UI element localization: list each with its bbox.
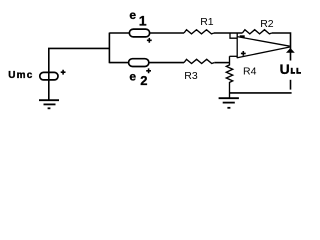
svg-text:R2: R2 — [260, 18, 274, 30]
wire R2 to output corner, down along output — [272, 33, 291, 61]
wire inverting input stub — [230, 33, 237, 38]
source e2 — [129, 59, 149, 67]
subscript u glyph (two stems with feet) — [291, 68, 301, 74]
svg-text:R1: R1 — [200, 16, 214, 28]
plus sign of Umc — [61, 70, 66, 75]
svg-text:R4: R4 — [243, 66, 257, 78]
svg-text:e: e — [129, 8, 136, 22]
wire Umc vertical + top horizontal to junction — [49, 48, 110, 100]
wire top branch: junction to e1 — [109, 32, 129, 34]
svg-text:2: 2 — [140, 73, 147, 88]
source e1 — [129, 29, 149, 37]
wire e1 to R1 — [150, 32, 184, 34]
svg-text:U: U — [280, 61, 290, 77]
wire output stub below Uu label — [290, 80, 292, 90]
plus sign of e1 — [147, 38, 152, 43]
svg-text:R3: R3 — [184, 70, 198, 82]
wire bottom return to ground node — [230, 92, 292, 94]
op-amp minus sign — [240, 35, 245, 37]
op-amp U1 — [237, 33, 290, 58]
wire non-inverting input stub — [230, 55, 238, 57]
svg-text:1: 1 — [139, 13, 147, 29]
wire bottom branch: junction to e2 — [109, 62, 128, 64]
output arrow (Uu) — [286, 48, 295, 53]
plus sign of e2 — [146, 68, 151, 73]
resistor R1 — [184, 30, 214, 34]
wire R1 to R2 (inverting node) — [214, 32, 242, 34]
ground (right, under R4) — [219, 98, 239, 108]
voltage source Umc — [40, 72, 58, 80]
ground (left, under Umc) — [39, 100, 59, 108]
op-amp plus sign — [241, 51, 246, 56]
resistor R3 — [184, 59, 214, 63]
wire R3 to R4 node — [214, 62, 229, 64]
wire junction vertical bus — [108, 33, 110, 64]
resistor R4 (vertical) — [226, 56, 232, 98]
resistor R2 — [242, 30, 271, 34]
svg-text:Umc: Umc — [8, 70, 33, 81]
svg-text:e: e — [129, 70, 136, 84]
wire e2 to R3 — [150, 62, 185, 64]
